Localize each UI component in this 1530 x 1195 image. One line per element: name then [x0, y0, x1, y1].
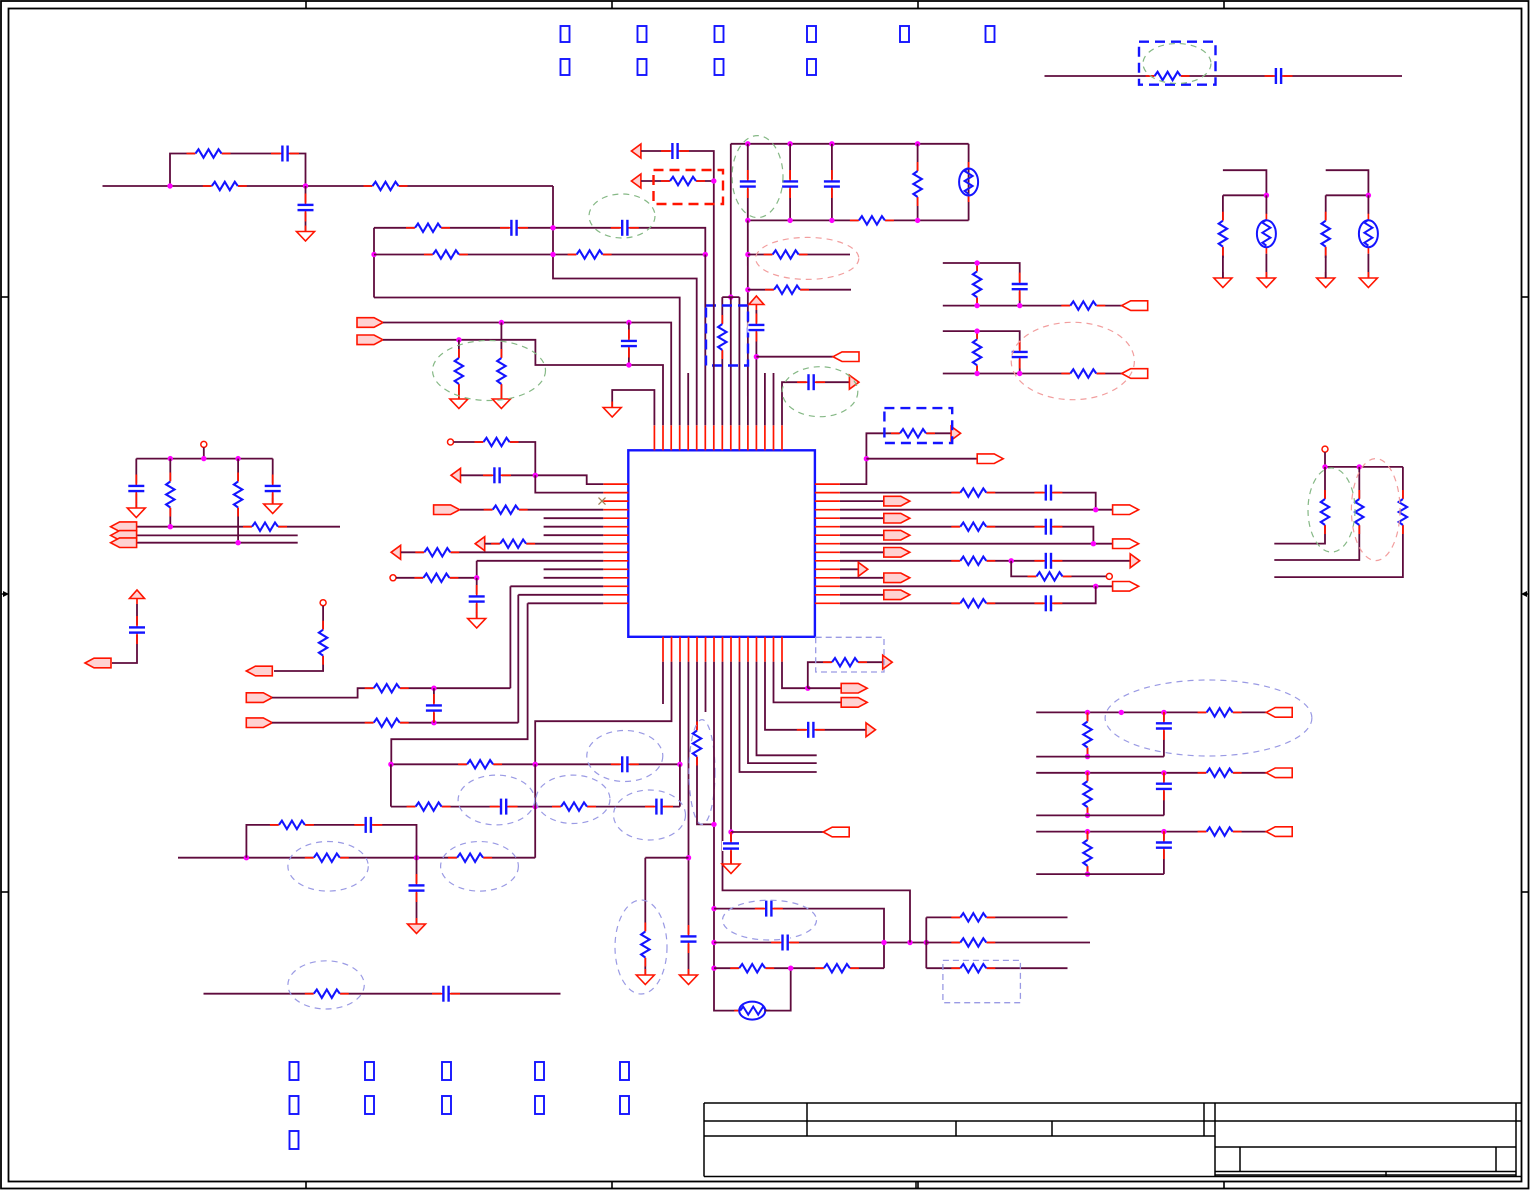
wire rowA [714, 909, 884, 969]
port flag RS3 [884, 496, 910, 506]
port flag IN1 [357, 318, 383, 328]
wire rowD [383, 340, 663, 426]
pin arrow marker [951, 426, 961, 440]
wire 3p bus [1325, 466, 1403, 468]
border center arrow left [1, 591, 9, 597]
wire L6 stub [544, 526, 604, 528]
resistor R50 [951, 598, 995, 609]
resistor R16 [165, 473, 176, 517]
ellipse marker [614, 790, 686, 840]
capacitor C18 [425, 694, 443, 722]
capacitor C17 [128, 616, 146, 644]
junction [168, 456, 173, 461]
junction [829, 141, 834, 146]
ellipse marker [458, 775, 535, 825]
wire L15 [528, 602, 604, 604]
pin arrow marker [391, 545, 401, 559]
junction [1085, 871, 1090, 876]
thermistor RT2 [1359, 214, 1378, 254]
ellipse marker [433, 341, 546, 401]
wire row1 [391, 763, 680, 765]
resistor R33 [305, 988, 349, 999]
ground [492, 393, 510, 409]
junction [1085, 813, 1090, 818]
terminal [448, 439, 454, 445]
resistor R4 [406, 222, 450, 233]
resistor R10 [850, 215, 894, 226]
no-connect [599, 498, 606, 505]
port flag RF2 [1266, 768, 1292, 778]
wire R9 col [917, 144, 919, 221]
wire arrow cap [641, 151, 714, 425]
wire L10 [477, 560, 604, 562]
wire rf bottom [1036, 814, 1164, 816]
junction [533, 762, 538, 767]
resistor R15 [1146, 71, 1190, 82]
wire 3r row2 [926, 942, 1090, 944]
junction [1085, 710, 1090, 715]
junction [244, 855, 249, 860]
wire R7 pulldown [500, 323, 502, 400]
capacitor C33 [1034, 594, 1062, 612]
resistor R27 [458, 759, 502, 770]
wire bus2 [137, 534, 298, 536]
ground [468, 613, 486, 629]
wire res leg [1222, 195, 1224, 258]
border tick right 2 [1522, 891, 1530, 893]
junction [677, 762, 682, 767]
wire rowB [714, 942, 926, 944]
wire rc res leg [976, 263, 978, 306]
wire osc bus drop [730, 144, 732, 297]
wire R7net [840, 534, 884, 536]
wire B10 [740, 662, 817, 772]
net label box top row1-6 [986, 26, 995, 42]
junction [1085, 770, 1090, 775]
wire 3r left [925, 917, 927, 968]
net label box bottom row2-2 [365, 1096, 374, 1114]
wire L13 [510, 585, 603, 587]
net label box bottom row2-1 [290, 1096, 299, 1114]
resistor R21 [491, 538, 535, 549]
wire B15 flag [808, 687, 841, 689]
ellipse marker [589, 194, 655, 238]
port flag RS14 [884, 590, 910, 600]
capacitor Cf1 [1155, 712, 1173, 740]
wire rc top [943, 263, 1020, 306]
resistor RP1 [1217, 212, 1228, 256]
terminal [320, 600, 326, 606]
junction [1161, 829, 1166, 834]
capacitor C14 [264, 475, 282, 503]
wire rf bottom [1036, 873, 1164, 875]
wire topright [1045, 75, 1403, 77]
resistor Rg3 [1082, 831, 1093, 875]
junction [1161, 770, 1166, 775]
resistor R36 [730, 963, 774, 974]
port flag B9 [823, 827, 849, 837]
ground [127, 502, 145, 518]
junction [235, 456, 240, 461]
wire B7 [714, 662, 740, 1011]
junction [1322, 464, 1327, 469]
net label box bottom row1-3 [442, 1062, 451, 1080]
resistor R35 [692, 722, 703, 766]
junction [788, 966, 793, 971]
capacitor C2 [297, 194, 315, 222]
junction [711, 966, 716, 971]
wire osc leg [1367, 195, 1369, 214]
resistor R2 [203, 181, 247, 192]
capacitor C12 [1265, 67, 1293, 85]
junction [1161, 710, 1166, 715]
wire 3p stem [1324, 452, 1326, 467]
junction [371, 252, 376, 257]
junction [864, 456, 869, 461]
resistor Rg1 [1082, 713, 1093, 757]
ground [1317, 272, 1335, 288]
port flag RS8 [1113, 539, 1139, 549]
wire L11 stub [544, 568, 604, 570]
port flag F3 [246, 718, 272, 728]
wire f2 [272, 688, 510, 697]
capacitor C30 [1034, 484, 1062, 502]
net label box bottom row2-3 [442, 1096, 451, 1114]
junction [686, 855, 691, 860]
resistor R6 [568, 249, 612, 260]
ellipse marker [441, 842, 519, 892]
junction [1366, 193, 1371, 198]
wire T7 drop [704, 255, 706, 426]
wire C23 gnd [416, 858, 418, 924]
junction [924, 940, 929, 945]
net label box bottom row1-4 [535, 1062, 544, 1080]
resistor R43 [1354, 490, 1365, 534]
capacitor C19 [611, 755, 639, 773]
capacitor Cf3 [1155, 831, 1173, 859]
resistor R20 [484, 504, 528, 515]
net label box top row1-3 [715, 26, 724, 42]
wire rail c1 [135, 459, 137, 508]
wire R2net [840, 493, 1096, 510]
port flag OUTB2 [1122, 369, 1148, 379]
pin arrow marker [883, 655, 893, 669]
junction [550, 225, 555, 230]
resistor R42 [1320, 490, 1331, 534]
pin arrow marker [1130, 554, 1140, 568]
thermistor RT1 [1257, 214, 1276, 254]
wire B15 res [808, 662, 883, 688]
bus flag A [111, 522, 137, 532]
wire net1 main [103, 185, 554, 187]
wire B3 drop [679, 662, 681, 765]
ground [1257, 272, 1275, 288]
junction [915, 218, 920, 223]
wire rf cleg [1163, 712, 1165, 756]
capacitor C11 [661, 142, 689, 160]
wire L8 [485, 543, 603, 545]
port flag RS4 [1113, 505, 1139, 515]
wire pair mid [1223, 194, 1267, 196]
wire 3p r3 [1274, 467, 1403, 577]
junction [974, 371, 979, 376]
resistor R17 [233, 473, 244, 517]
ground [603, 402, 621, 418]
wire B8 [723, 662, 911, 943]
frame marker box [706, 306, 748, 366]
junction [754, 354, 759, 359]
wire L7 stub [544, 534, 604, 536]
junction [1093, 584, 1098, 589]
border tick left 1 [1, 296, 9, 298]
junction [711, 940, 716, 945]
net label box bottom row2-4 [535, 1096, 544, 1114]
wire bus3 [137, 542, 298, 544]
wire T10 drop [730, 297, 732, 425]
capacitor C8 [823, 170, 841, 198]
wire R14net [840, 594, 884, 596]
ground [264, 498, 282, 514]
wire T9 branch [722, 296, 739, 298]
terminal [1322, 446, 1328, 452]
junction [167, 183, 172, 188]
resistor R32 [270, 819, 314, 830]
wire L10 drop [476, 561, 478, 578]
junction [533, 473, 538, 478]
wire rowC [383, 323, 671, 426]
ellipse marker [587, 731, 663, 782]
wire 3r row1 [926, 916, 1067, 918]
frame marker box [1139, 42, 1216, 85]
wire row1-row2 right [679, 764, 681, 806]
wire L12 cap [476, 578, 478, 619]
wire T14 stub [764, 373, 766, 425]
resistor R44 [1397, 490, 1408, 534]
ellipse marker [723, 900, 817, 940]
junction [745, 287, 750, 292]
bus flag C [111, 538, 137, 548]
resistor R40 [951, 937, 995, 948]
ground [1359, 272, 1377, 288]
resistor R38 [823, 657, 867, 668]
capacitor C7 [781, 170, 799, 198]
pin arrow marker [858, 562, 868, 576]
ellipse marker [732, 136, 783, 218]
port flag RS7 [884, 530, 910, 540]
resistor R37 [815, 963, 859, 974]
wire L12 stub [544, 577, 604, 579]
IC U1 pins [603, 425, 840, 662]
junction [456, 337, 461, 342]
resistor R8 [453, 349, 464, 393]
wire R9net [840, 551, 884, 553]
resistor R22 [415, 547, 459, 558]
wire rf top [1036, 831, 1266, 833]
wire B9 [730, 662, 732, 864]
wire 3p r2 [1274, 467, 1359, 560]
capacitor C21 [645, 798, 673, 816]
wire B4 [688, 662, 690, 975]
frame marker box [654, 170, 724, 204]
pin arrow marker [866, 723, 876, 737]
wire net1 down [553, 186, 697, 425]
wire L13 drop [509, 586, 511, 688]
junction [1017, 303, 1022, 308]
wire R11net [840, 568, 858, 570]
junction [303, 183, 308, 188]
wire res leg2 [1222, 256, 1224, 278]
junction [703, 252, 708, 257]
power flag VDD [130, 590, 145, 604]
resistor Rb2 [972, 330, 983, 374]
wire to C2 [305, 186, 307, 232]
junction [499, 320, 504, 325]
IC U1 body [628, 450, 815, 637]
pin arrow marker [631, 174, 641, 188]
junction [201, 456, 206, 461]
resistor Rf3 [1198, 826, 1242, 837]
resistor R29 [552, 801, 596, 812]
ground [722, 858, 740, 874]
net label box top row1-5 [900, 26, 909, 42]
wire res leg2 [1325, 256, 1327, 278]
wire term res [274, 606, 323, 671]
capacitor C15 [483, 466, 511, 484]
net label box top row2-2 [638, 59, 647, 75]
wire T15 stub [773, 373, 775, 425]
wire R10net [840, 560, 1130, 562]
resistor R5 [424, 249, 468, 260]
junction [1017, 371, 1022, 376]
wire pair top [1326, 170, 1369, 195]
wire 3r row3 [926, 967, 1067, 969]
wire L9 [401, 551, 603, 553]
capacitor C22 [354, 816, 382, 834]
wire T9 drop [721, 297, 723, 425]
wire osc loop [765, 968, 791, 1010]
port flag B14 [841, 698, 867, 708]
wire L5 stub [544, 517, 604, 519]
resistor RP2 [1320, 212, 1331, 256]
wire B6 stub [705, 662, 707, 712]
wire net2 mid [374, 254, 705, 256]
capacitor C10 [797, 373, 825, 391]
junction [1357, 464, 1362, 469]
junction [787, 218, 792, 223]
capacitor C25 [680, 925, 698, 953]
frame marker box [884, 408, 952, 443]
frame marker box [943, 960, 1021, 1002]
pin arrow marker [451, 468, 461, 482]
wire osc leg2 [1265, 254, 1267, 278]
wire T12 drop [747, 220, 749, 425]
wire rail r1 [169, 459, 171, 527]
port flag PW [85, 658, 111, 668]
ground [680, 969, 698, 985]
ellipse marker [1143, 44, 1211, 84]
wire term stem [203, 447, 205, 458]
junction [907, 940, 912, 945]
net label box top row1-4 [807, 26, 816, 42]
wire C5 link [628, 323, 630, 366]
ground [297, 226, 315, 242]
resistor R30 [305, 852, 349, 863]
border tick bottom 1 [305, 1182, 307, 1189]
ellipse marker [288, 961, 364, 1009]
net label box top row1-2 [638, 26, 647, 42]
junction [881, 940, 886, 945]
junction [974, 303, 979, 308]
pin arrow marker [849, 375, 859, 389]
wire L1 top [454, 442, 536, 475]
ellipse marker [1105, 680, 1312, 756]
wire L15 drop [391, 603, 527, 764]
capacitor C16 [468, 585, 486, 613]
resistor R12 [765, 284, 809, 295]
wire B4 branch [645, 857, 688, 859]
wire row3 branch [246, 825, 416, 858]
wire rf cleg [1163, 773, 1165, 816]
junction [728, 294, 733, 299]
junction [1091, 541, 1096, 546]
resistor R23 [414, 572, 458, 583]
resistor R45 [891, 428, 935, 439]
crystal Y1 [959, 162, 978, 202]
resistor R7 [496, 349, 507, 393]
wire Y1 col [968, 144, 970, 221]
resistor R3 [364, 181, 408, 192]
resistor R9 [912, 162, 923, 206]
capacitor Cf2 [1155, 772, 1173, 800]
capacitor C26 [755, 900, 783, 918]
wire R13net [840, 585, 1113, 587]
wire to flag [756, 356, 833, 358]
wire net2 bottom [374, 298, 680, 426]
junction [168, 524, 173, 529]
capacitor C27 [771, 934, 799, 952]
net label box bottom row2-5 [620, 1096, 629, 1114]
capacitor C3 [500, 219, 528, 237]
resistor R14 [661, 176, 705, 187]
net label box bottom row1-1 [290, 1062, 299, 1080]
junction [235, 540, 240, 545]
junction [431, 720, 436, 725]
wire R4net [840, 509, 1113, 511]
wire L14 drop [517, 595, 519, 723]
wire B1 stub [662, 662, 664, 704]
capacitor C1 [271, 145, 299, 163]
junction [787, 141, 792, 146]
junction [711, 822, 716, 827]
ground [450, 393, 468, 409]
junction [829, 218, 834, 223]
resistor Rc2 [1061, 368, 1105, 379]
resistor R11 [764, 249, 808, 260]
net label box bottom row1-5 [620, 1062, 629, 1080]
capacitor C29 [797, 721, 825, 739]
wire L12 rc [396, 577, 477, 579]
wire R12net [840, 577, 884, 579]
wire net2 top [374, 228, 705, 255]
capacitor C28 [722, 832, 740, 860]
junction [745, 218, 750, 223]
junction [915, 141, 920, 146]
port flag OUTB1 [1122, 301, 1148, 311]
wire R8net [840, 543, 1113, 545]
crystal Y2 [734, 1002, 770, 1020]
pin arrow marker [475, 537, 485, 551]
capacitor C32 [1034, 552, 1062, 570]
